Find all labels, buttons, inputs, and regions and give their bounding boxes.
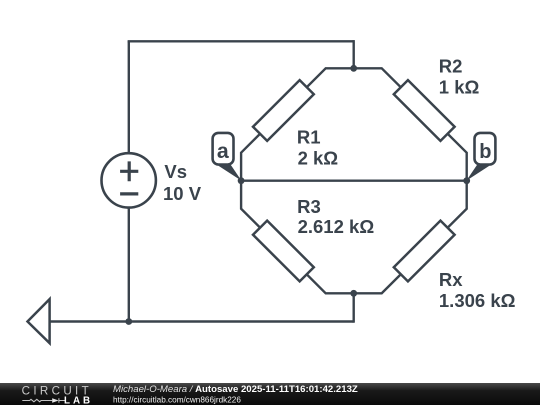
- resistor Rx body: [394, 221, 455, 282]
- wire left node to R3 (bottom-left branch): [241, 181, 354, 294]
- svg-text:Rx: Rx: [439, 269, 463, 290]
- svg-text:10 V: 10 V: [163, 183, 202, 204]
- svg-text:R1: R1: [297, 127, 321, 148]
- wire right node to Rx (bottom-right branch): [354, 181, 467, 294]
- wire middle a-b: [241, 179, 467, 181]
- resistor R3 body: [253, 221, 314, 282]
- node top junction dot: [350, 65, 357, 72]
- svg-text:b: b: [479, 141, 491, 163]
- junction dot at ground rail: [125, 318, 132, 325]
- voltage source V1 body: [102, 153, 156, 207]
- svg-text:R2: R2: [439, 55, 463, 76]
- wire bottom rail: [50, 320, 354, 322]
- wire from Vs top to corner: [128, 41, 130, 152]
- footer bar: [0, 383, 540, 405]
- resistor R1 body: [253, 80, 314, 141]
- wire top node to R1 (top-left branch): [241, 68, 354, 180]
- node a junction dot: [238, 177, 245, 184]
- svg-text:Vs: Vs: [164, 161, 187, 182]
- resistor R2 body: [394, 80, 455, 141]
- wire from Vs bottom to ground rail: [128, 208, 130, 321]
- ground symbol: [28, 299, 50, 343]
- wire bottom node to rail: [353, 293, 355, 322]
- node bottom junction dot: [350, 290, 357, 297]
- wire down to top node: [353, 40, 355, 68]
- node b flag: [466, 133, 495, 181]
- svg-text:R3: R3: [297, 196, 321, 217]
- svg-text:2 kΩ: 2 kΩ: [298, 147, 339, 168]
- footer logo doodle: [22, 398, 65, 402]
- svg-text:Michael-O-Meara / Autosave 202: Michael-O-Meara / Autosave 2025-11-11T16…: [113, 384, 358, 395]
- svg-text:LAB: LAB: [64, 396, 93, 405]
- svg-text:1.306 kΩ: 1.306 kΩ: [439, 290, 516, 311]
- svg-text:http://circuitlab.com/cwn866jr: http://circuitlab.com/cwn866jrdk226: [113, 395, 241, 404]
- wire top node to R2 (top-right branch): [354, 68, 467, 180]
- node b junction dot: [463, 177, 470, 184]
- svg-text:2.612 kΩ: 2.612 kΩ: [298, 216, 375, 237]
- node a flag: [213, 133, 242, 181]
- svg-text:1 kΩ: 1 kΩ: [439, 77, 480, 98]
- wire top horizontal: [128, 40, 354, 42]
- svg-text:a: a: [217, 139, 229, 163]
